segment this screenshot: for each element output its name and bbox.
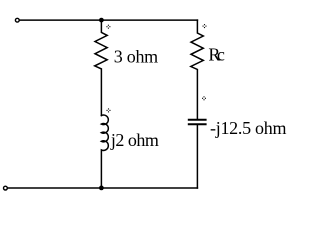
- svg-text:j2 ohm: j2 ohm: [110, 130, 159, 150]
- svg-text:Rc: Rc: [208, 45, 225, 65]
- svg-text:-j12.5 ohm: -j12.5 ohm: [210, 118, 287, 138]
- svg-text:3 ohm: 3 ohm: [114, 46, 159, 66]
